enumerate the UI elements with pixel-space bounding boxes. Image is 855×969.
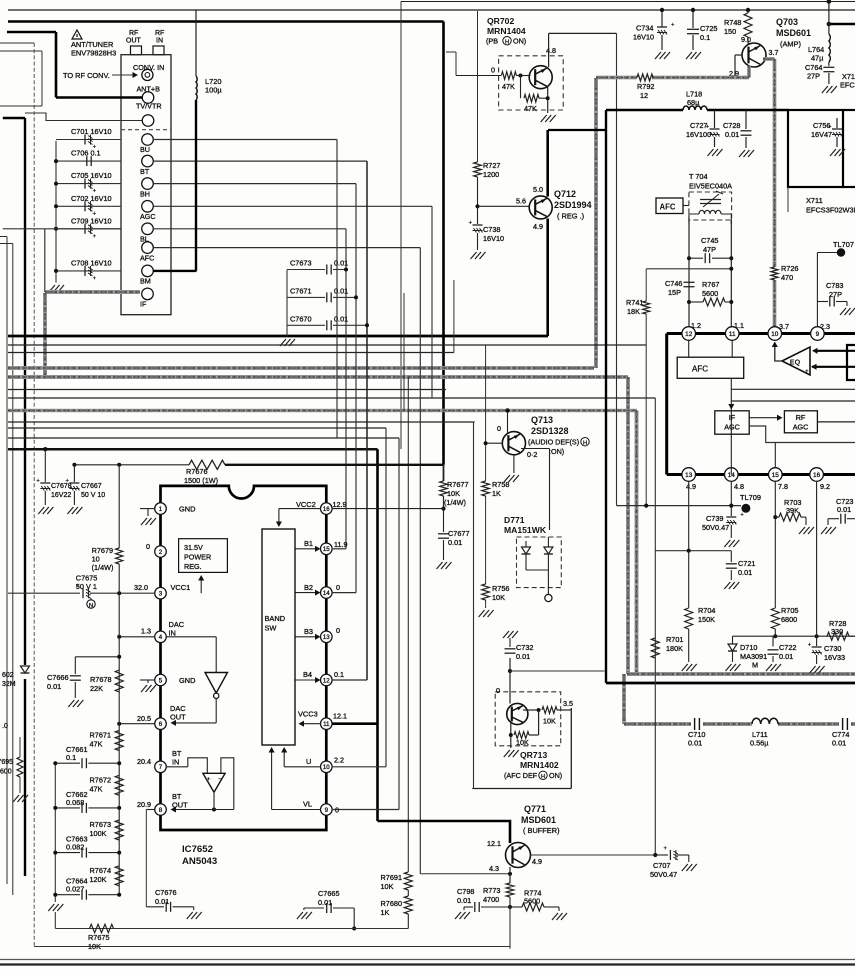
svg-text:B1: B1 bbox=[304, 539, 313, 548]
capacitor C732 bbox=[503, 631, 518, 638]
ground ladder rail bbox=[48, 904, 63, 911]
svg-text:4.8: 4.8 bbox=[734, 482, 744, 491]
svg-text:47K: 47K bbox=[90, 740, 103, 749]
capacitor C709 bbox=[56, 228, 121, 230]
wire AFC row east bbox=[153, 247, 420, 249]
svg-text:4: 4 bbox=[159, 634, 163, 641]
svg-text:6800: 6800 bbox=[781, 615, 797, 624]
svg-text:0.01: 0.01 bbox=[832, 739, 846, 748]
shield hatched box A bottom y368 bbox=[8, 366, 594, 370]
wire R741 row y269 bbox=[646, 268, 731, 270]
svg-text:1.3: 1.3 bbox=[141, 627, 151, 636]
wire bus y449 thick bbox=[8, 448, 378, 451]
wire pin12 into AFC bbox=[688, 341, 690, 358]
ground C764 bbox=[828, 73, 830, 84]
svg-text:BU: BU bbox=[140, 145, 150, 154]
svg-text:9.2: 9.2 bbox=[820, 482, 830, 491]
wire BH row to B2 line bbox=[153, 183, 356, 185]
svg-text:C7671: C7671 bbox=[290, 287, 312, 296]
resistor R7675 bbox=[90, 924, 114, 932]
resistor R726 bbox=[771, 267, 778, 280]
wire VCC2 to band sw bbox=[279, 508, 321, 510]
capacitor C774 bbox=[842, 718, 844, 730]
diode pair D771 dashed box bbox=[517, 537, 562, 588]
wire Q712 collector thick bbox=[546, 130, 549, 197]
svg-text:16V10: 16V10 bbox=[633, 33, 654, 42]
resistor 47K base bbox=[501, 72, 516, 80]
ground C738 bbox=[471, 252, 486, 259]
wire pin9 column bbox=[816, 253, 818, 330]
T704 coil bbox=[699, 210, 721, 214]
svg-text:M: M bbox=[752, 661, 758, 670]
svg-text:32.0: 32.0 bbox=[134, 583, 148, 592]
capacitor C725 bbox=[692, 10, 694, 28]
wire R727 column x477 bbox=[477, 11, 479, 162]
svg-text:47P: 47P bbox=[703, 245, 716, 254]
wire pin12 column x689 bbox=[688, 220, 690, 329]
transistor Q771 bbox=[506, 843, 531, 868]
svg-text:+: + bbox=[663, 845, 667, 852]
svg-text:4.9: 4.9 bbox=[532, 857, 542, 866]
capacitor C739 bbox=[730, 506, 732, 516]
resistor R741 bbox=[645, 269, 647, 301]
wire x404 bbox=[403, 293, 405, 411]
resistor R7691 bbox=[404, 872, 412, 890]
svg-text:BT: BT bbox=[140, 167, 150, 176]
capacitor C722 bbox=[772, 635, 774, 637]
shield hatched line y410 bbox=[8, 409, 637, 412]
svg-text:+: + bbox=[93, 275, 97, 282]
svg-text:R7676: R7676 bbox=[186, 467, 208, 476]
wire C721 feed y550.7 bbox=[655, 550, 731, 552]
svg-text:12: 12 bbox=[323, 677, 330, 684]
capacitor C7666 bbox=[74, 657, 76, 674]
svg-text:10K: 10K bbox=[381, 882, 394, 891]
resistor R703 bbox=[775, 516, 779, 518]
svg-text:(1/4W): (1/4W) bbox=[92, 563, 114, 572]
svg-text:C7666: C7666 bbox=[47, 673, 69, 682]
wire y401 east bbox=[731, 400, 855, 402]
wire Q713 emitter to ground bbox=[513, 455, 515, 473]
wire pin6 west bbox=[119, 723, 155, 725]
svg-text:R792: R792 bbox=[637, 82, 654, 91]
wire op-amp out bbox=[213, 792, 215, 809]
svg-text:10K: 10K bbox=[447, 489, 460, 498]
svg-text:18K: 18K bbox=[627, 307, 640, 316]
svg-text:+: + bbox=[805, 368, 809, 375]
ground QR702 bbox=[541, 115, 556, 122]
diode D710 bbox=[732, 636, 734, 644]
wire BT row to B1 line bbox=[153, 160, 367, 162]
IC IF block bottom edge thick bbox=[667, 473, 855, 476]
wire BU row to B4 line bbox=[153, 139, 337, 141]
svg-text:3.5: 3.5 bbox=[563, 699, 573, 708]
svg-text:0.01: 0.01 bbox=[334, 287, 348, 296]
wire VCC3 thick path to Q771 bbox=[326, 722, 377, 725]
shield hatched box A right x596 (IF signal route) bbox=[594, 78, 598, 368]
svg-text:( BUFFER): ( BUFFER) bbox=[523, 826, 560, 835]
svg-text:TL709: TL709 bbox=[740, 493, 761, 502]
svg-text:R704: R704 bbox=[698, 606, 715, 615]
resistor R728 bbox=[816, 481, 818, 636]
pin 10 bbox=[321, 761, 333, 773]
wire R7676 row y465 bbox=[74, 464, 189, 466]
wire ladder rail x55 bbox=[54, 763, 56, 902]
pin BH bbox=[142, 178, 154, 190]
svg-text:IF: IF bbox=[729, 413, 736, 422]
wire Q713 collector to dash line bbox=[507, 411, 509, 433]
svg-text:IN: IN bbox=[172, 758, 179, 767]
svg-text:EQ: EQ bbox=[790, 358, 801, 367]
ground C727 bbox=[708, 149, 723, 156]
resistor R774 bbox=[510, 906, 522, 908]
wire x606 thick south bbox=[605, 110, 607, 683]
wire QR702 collector north bbox=[548, 33, 550, 67]
capacitor C783 bbox=[817, 301, 828, 303]
resistor R7679 bbox=[118, 465, 120, 548]
wire tuner cap rail x56 bbox=[55, 141, 57, 283]
tuner internal dashed divider bbox=[121, 129, 171, 131]
svg-text:TO RF CONV.: TO RF CONV. bbox=[63, 71, 110, 80]
svg-text:+: + bbox=[671, 22, 675, 29]
capacitor C734 bbox=[661, 10, 663, 27]
pin AGC bbox=[142, 201, 154, 213]
svg-text:B4: B4 bbox=[303, 670, 312, 679]
wire Q713 base bbox=[486, 442, 502, 444]
transistor QR713 dashed box bbox=[495, 692, 561, 746]
svg-text:(PB: (PB bbox=[486, 37, 498, 46]
svg-text:0.01: 0.01 bbox=[155, 897, 169, 906]
svg-text:MSD601: MSD601 bbox=[521, 815, 556, 825]
svg-text:12.9: 12.9 bbox=[333, 500, 347, 509]
capacitor C721 bbox=[730, 551, 732, 562]
capacitor C7661 bbox=[55, 762, 80, 764]
svg-text:C746: C746 bbox=[665, 279, 682, 288]
wire pin1 ground bbox=[140, 508, 155, 510]
svg-text:R741: R741 bbox=[626, 298, 643, 307]
wire Q713 emitter east to D771 bbox=[521, 448, 550, 450]
svg-text:47K: 47K bbox=[90, 784, 103, 793]
svg-text:BAND: BAND bbox=[265, 614, 286, 623]
svg-text:VCC2: VCC2 bbox=[296, 500, 316, 509]
wire C7666 row bbox=[75, 656, 119, 658]
svg-text:(AMP): (AMP) bbox=[780, 40, 801, 49]
pin 9 bbox=[811, 327, 825, 341]
svg-text:0.1: 0.1 bbox=[334, 670, 344, 679]
wire shield drain x44.8 bbox=[44, 229, 46, 292]
svg-text:AFC: AFC bbox=[692, 365, 708, 374]
ground C798 bbox=[463, 907, 465, 910]
wire VL line x399 bbox=[398, 438, 400, 810]
wire pin4 west bbox=[119, 636, 155, 638]
pin IF bbox=[142, 288, 154, 300]
diode D771b bbox=[547, 537, 549, 547]
svg-text:0.01: 0.01 bbox=[334, 314, 348, 323]
thick bracket right edge bbox=[847, 345, 855, 380]
svg-text:5600: 5600 bbox=[702, 289, 718, 298]
wire TL709 line y505 bbox=[617, 505, 742, 507]
inductor L720 bbox=[195, 10, 197, 76]
svg-text:+: + bbox=[207, 776, 211, 783]
svg-text:+: + bbox=[93, 233, 97, 240]
coax connector CONV IN bbox=[142, 69, 153, 80]
svg-text:C702 16V10: C702 16V10 bbox=[71, 194, 112, 203]
wire left bus x7 bbox=[0, 236, 7, 238]
svg-text:13: 13 bbox=[323, 634, 330, 641]
capacitor C7678 bbox=[43, 447, 47, 451]
svg-text:31.5V: 31.5V bbox=[184, 543, 203, 552]
capacitor C701 bbox=[56, 139, 121, 141]
transistor Q712 bbox=[529, 196, 552, 219]
svg-text:R7691: R7691 bbox=[381, 873, 403, 882]
wire D771 common bbox=[526, 569, 548, 571]
svg-text:R758: R758 bbox=[492, 480, 509, 489]
svg-text:10: 10 bbox=[323, 764, 330, 771]
shield hatched drop x628 bbox=[626, 377, 630, 674]
svg-text:C706 0.1: C706 0.1 bbox=[71, 149, 101, 158]
resistor R767 bbox=[687, 300, 691, 304]
svg-text:QR702: QR702 bbox=[487, 16, 514, 26]
wire pin7 east to op-amp bbox=[166, 766, 188, 768]
page border bottom bbox=[0, 959, 855, 961]
svg-text:0: 0 bbox=[336, 583, 340, 592]
op-amp EQ bbox=[782, 347, 810, 375]
wire top rail 1 bbox=[8, 9, 855, 11]
resistor R748 bbox=[747, 10, 749, 13]
resistor R701 bbox=[651, 638, 659, 658]
wire pin15 north bbox=[774, 443, 776, 468]
svg-text:0·2: 0·2 bbox=[527, 450, 537, 459]
svg-text:12.1: 12.1 bbox=[487, 839, 501, 848]
svg-text:C756: C756 bbox=[813, 121, 830, 130]
svg-text:Q771: Q771 bbox=[524, 804, 546, 814]
svg-text:C707: C707 bbox=[653, 861, 670, 870]
svg-text:R773: R773 bbox=[483, 886, 500, 895]
svg-text:20.4: 20.4 bbox=[137, 757, 151, 766]
svg-text:C739: C739 bbox=[706, 514, 723, 523]
op-amp BT feedback loop bbox=[221, 758, 234, 810]
ground C728 bbox=[739, 150, 754, 157]
resistor R7680 bbox=[407, 890, 409, 896]
svg-text:9.0: 9.0 bbox=[741, 35, 751, 44]
svg-text:R705: R705 bbox=[781, 606, 798, 615]
wire Q703 emitter shielded to pin10 bbox=[747, 66, 751, 78]
svg-text:H: H bbox=[541, 774, 545, 780]
pin 15 bbox=[769, 468, 783, 482]
shield hatched IF route west y292 bbox=[45, 290, 140, 294]
svg-text:+: + bbox=[740, 512, 744, 519]
box AFC inside IC bbox=[677, 357, 744, 378]
resistor R727 bbox=[474, 162, 482, 177]
svg-text:C701 16V10: C701 16V10 bbox=[71, 127, 112, 136]
ground R695 bbox=[13, 795, 28, 802]
svg-text:EFCS6: EFCS6 bbox=[840, 81, 855, 90]
wire QR702 collector east y33 bbox=[549, 32, 617, 34]
svg-text:15P: 15P bbox=[668, 288, 681, 297]
resistor R758 bbox=[482, 481, 490, 496]
svg-text:C7670: C7670 bbox=[290, 314, 312, 323]
ground C730 bbox=[810, 666, 825, 673]
wire left bus x42 bbox=[0, 50, 42, 52]
svg-text:0.01: 0.01 bbox=[837, 505, 851, 514]
svg-text:7: 7 bbox=[159, 764, 163, 771]
wire TV/VTR to left bbox=[25, 113, 143, 121]
wire C7665 drop bbox=[353, 908, 355, 929]
svg-text:47µ: 47µ bbox=[811, 54, 824, 63]
svg-text:C798: C798 bbox=[457, 887, 474, 896]
wire QR702 base feed bbox=[446, 51, 456, 53]
wire pin11 column x731 bbox=[730, 220, 732, 329]
svg-text:IN: IN bbox=[156, 38, 163, 45]
svg-text:4700: 4700 bbox=[483, 895, 499, 904]
wire AGC row east bbox=[153, 205, 432, 207]
svg-text:12: 12 bbox=[640, 91, 648, 100]
wire EQ input 2 thick from right bbox=[812, 366, 855, 368]
svg-text:470: 470 bbox=[781, 273, 793, 282]
pin 3 bbox=[155, 587, 167, 599]
svg-text:+: + bbox=[808, 642, 812, 649]
svg-text:32M: 32M bbox=[2, 681, 16, 688]
shield coax line y724 bbox=[624, 722, 691, 726]
wire BL row to B3 line bbox=[3, 228, 121, 230]
svg-text:C722: C722 bbox=[779, 643, 796, 652]
svg-text:SW: SW bbox=[265, 624, 277, 633]
svg-text:.0: .0 bbox=[2, 723, 8, 730]
ground R774 bbox=[558, 907, 560, 911]
svg-text:602: 602 bbox=[2, 672, 14, 679]
wire BU line x337 bbox=[336, 140, 338, 439]
pin 12 bbox=[321, 674, 333, 686]
diode D771a bbox=[525, 541, 527, 547]
svg-text:D710: D710 bbox=[740, 643, 757, 652]
svg-text:15: 15 bbox=[323, 546, 330, 553]
ground Q713 bbox=[504, 475, 519, 482]
ground pin5 bbox=[141, 685, 156, 692]
svg-text:0.068: 0.068 bbox=[66, 798, 84, 807]
pin 13 bbox=[321, 631, 333, 643]
pin 14 bbox=[725, 468, 739, 482]
resistor R792 bbox=[637, 74, 653, 81]
capacitor C702 bbox=[56, 205, 121, 207]
svg-text:0.01: 0.01 bbox=[725, 130, 739, 139]
wire RF AGC east bbox=[817, 421, 855, 423]
svg-text:3.7: 3.7 bbox=[769, 48, 779, 57]
svg-text:2SD1328: 2SD1328 bbox=[531, 426, 569, 436]
wire vertical from top rail at x401 bbox=[400, 2, 402, 450]
svg-text:B2: B2 bbox=[304, 583, 313, 592]
svg-text:9: 9 bbox=[816, 331, 820, 338]
svg-text:(1/4W): (1/4W) bbox=[444, 498, 466, 507]
svg-text:16: 16 bbox=[813, 472, 821, 479]
wire pin8 west to C7676 bbox=[146, 809, 155, 811]
resistor R756 bbox=[482, 584, 490, 600]
svg-text:13: 13 bbox=[685, 472, 693, 479]
tuner box ENV79828H3 bbox=[121, 55, 171, 315]
wire x616 south to TL709 line bbox=[616, 33, 618, 505]
svg-text:BH: BH bbox=[140, 189, 150, 198]
ground tuner cap rail bbox=[49, 285, 64, 292]
ground C734 bbox=[655, 52, 670, 59]
ground C723 bbox=[827, 519, 829, 525]
svg-text:6: 6 bbox=[159, 721, 163, 728]
box RF AGC bbox=[784, 411, 817, 433]
wire VCC3 arrow into band sw bbox=[300, 723, 321, 725]
svg-text:120K: 120K bbox=[90, 875, 107, 884]
wire VL east bbox=[332, 809, 400, 811]
ground R756 bbox=[479, 610, 494, 617]
svg-text:0.1: 0.1 bbox=[700, 33, 710, 42]
transistor QR702 bbox=[529, 66, 552, 89]
transistor QR702 dashed box bbox=[499, 56, 564, 110]
svg-text:0.01: 0.01 bbox=[779, 652, 793, 661]
inductor L764 bbox=[828, 2, 830, 35]
capacitor C7676 bbox=[146, 906, 164, 908]
transistor Q703 bbox=[742, 43, 766, 67]
pin 16 bbox=[321, 503, 333, 515]
svg-text:RF: RF bbox=[129, 30, 138, 37]
resistor R704 bbox=[688, 551, 690, 608]
svg-text:MRN1404: MRN1404 bbox=[487, 26, 526, 36]
svg-text:4.8: 4.8 bbox=[546, 46, 556, 55]
svg-text:0.082: 0.082 bbox=[66, 843, 84, 852]
svg-text:5.6: 5.6 bbox=[516, 197, 526, 206]
svg-text:REG.: REG. bbox=[184, 562, 202, 571]
capacitor C7671 bbox=[287, 296, 325, 298]
ground C783 bbox=[846, 302, 848, 307]
svg-text:12.1: 12.1 bbox=[333, 712, 347, 721]
capacitor C723 bbox=[828, 518, 839, 520]
svg-text:MRN1402: MRN1402 bbox=[520, 760, 559, 770]
pin 13 bbox=[682, 468, 696, 482]
capacitor C7667 bbox=[73, 465, 75, 482]
wire pin4 east to inverter bbox=[166, 636, 216, 638]
svg-text:7.8: 7.8 bbox=[778, 482, 788, 491]
ground C7667 bbox=[67, 507, 82, 514]
svg-text:50 V 10: 50 V 10 bbox=[81, 492, 105, 499]
wire pin13 down to C721 node bbox=[688, 481, 690, 551]
transistor Q713 bbox=[502, 432, 525, 455]
wire B+ drop x444 thick bbox=[442, 22, 445, 465]
wire EQ output to pin10 with arrow bbox=[775, 344, 782, 361]
svg-text:14: 14 bbox=[323, 590, 330, 597]
wire pin14 east bbox=[332, 592, 357, 594]
IC7652 outline bbox=[161, 486, 327, 830]
svg-text:4.9: 4.9 bbox=[686, 482, 696, 491]
ground C722 bbox=[766, 664, 781, 671]
svg-text:16V22: 16V22 bbox=[51, 492, 71, 499]
svg-text:C727: C727 bbox=[690, 121, 707, 130]
wire C732 node to east bbox=[508, 669, 512, 673]
svg-text:12: 12 bbox=[685, 331, 693, 338]
svg-text:IN: IN bbox=[169, 629, 176, 638]
svg-text:10K: 10K bbox=[88, 942, 101, 951]
svg-text:(AUDIO DEF(S): (AUDIO DEF(S) bbox=[528, 438, 579, 447]
svg-text:C738: C738 bbox=[483, 225, 500, 234]
shield hatched drop x624 to coax line bbox=[622, 674, 626, 724]
svg-text:EIV5EC040A: EIV5EC040A bbox=[689, 182, 732, 191]
wire QR713 emitter bbox=[510, 722, 512, 748]
pin BT bbox=[142, 155, 154, 167]
resistor 10K QR713 b bbox=[538, 710, 540, 735]
svg-text:TV/VTR: TV/VTR bbox=[136, 102, 162, 111]
svg-text:20.9: 20.9 bbox=[137, 800, 151, 809]
svg-text:C7673: C7673 bbox=[290, 259, 312, 268]
svg-text:100K: 100K bbox=[90, 829, 107, 838]
svg-text:C7667: C7667 bbox=[81, 483, 102, 490]
wire x788 stub below box bbox=[787, 187, 789, 212]
svg-text:+: + bbox=[65, 478, 69, 485]
svg-text:X711: X711 bbox=[806, 196, 823, 205]
